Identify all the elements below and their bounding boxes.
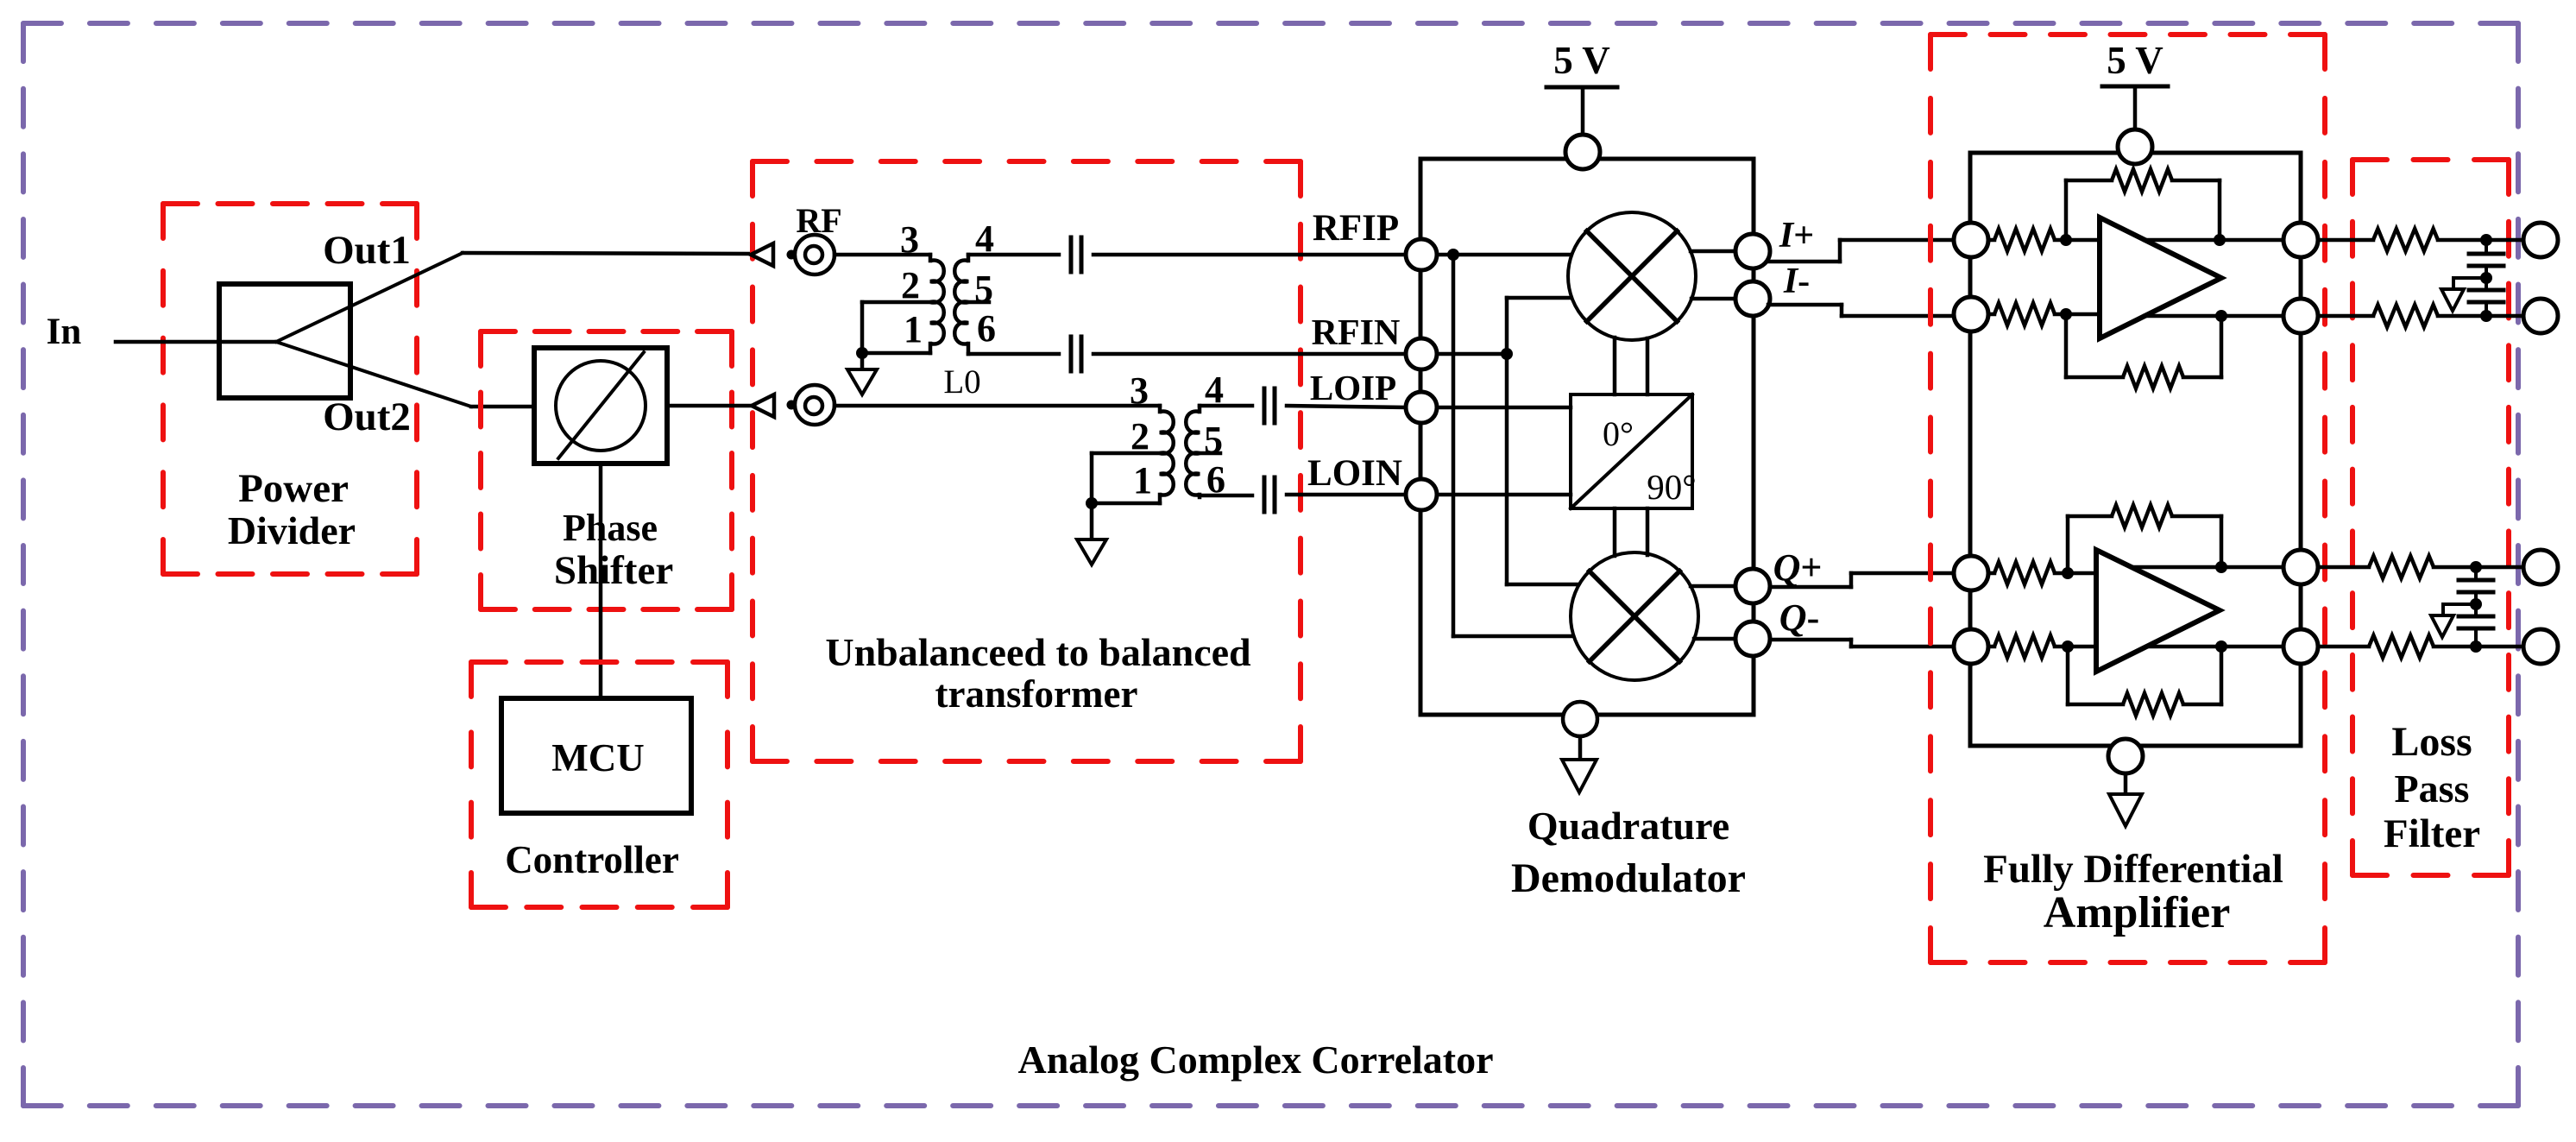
- 5V supply bar (amplifier): [2102, 85, 2168, 89]
- label MCU: [551, 736, 644, 779]
- demod input node LOIN: [1406, 479, 1437, 510]
- label 5 V (amplifier supply): [2107, 39, 2163, 82]
- wire: I+ to amplifier input: [1768, 240, 1954, 262]
- junction dot on RFIP line: [1447, 249, 1459, 261]
- wire: T1 pin6 to capacitor C2: [968, 352, 1059, 356]
- wire: U3A output- to port: [2145, 314, 2283, 319]
- junction dot T1 pin1/pin2: [856, 347, 868, 359]
- wire: RFIP branch down to mixer M2 lower input: [1453, 255, 1575, 636]
- phase shifter PS1 block: [534, 348, 667, 464]
- label 0 degrees: [1603, 414, 1634, 453]
- wire: T1 pin5 stub: [968, 300, 989, 305]
- wire: R10 to output terminal: [2438, 314, 2524, 319]
- demod input node RFIP: [1406, 239, 1437, 270]
- RF connector arrowhead: [751, 243, 773, 266]
- svg-text:6: 6: [977, 307, 996, 350]
- mixer M2 (Q channel): [1571, 552, 1698, 680]
- label Quadrature Demodulator: [1511, 804, 1746, 901]
- label T1 pin 5: [974, 268, 993, 310]
- feedback resistor R3 (U3A top): [2066, 169, 2220, 240]
- svg-text:1: 1: [1133, 459, 1152, 502]
- junction dot LPF I-: [2480, 310, 2492, 322]
- label 5 V (demodulator supply): [1553, 39, 1609, 82]
- junction dot R4/output: [2215, 310, 2227, 322]
- demod output node I+: [1735, 234, 1770, 268]
- wire: RFIN node to junction: [1437, 352, 1507, 356]
- junction dot R5/feedback: [2062, 567, 2074, 579]
- output terminal circle Q+: [2523, 550, 2558, 584]
- svg-text:RF: RF: [796, 201, 841, 240]
- ground G4 below amplifier: [2109, 773, 2142, 826]
- wire: amp out+ to filter resistor: [2318, 238, 2373, 243]
- LO connector J2: [795, 385, 835, 425]
- label In: [47, 312, 82, 352]
- wire: T1 pin4 to capacitor C1: [968, 253, 1059, 257]
- label T1 pin 2: [901, 264, 920, 306]
- junction dot LPF Q-: [2470, 640, 2482, 653]
- resistor R5 (U3B + input): [1988, 562, 2096, 584]
- dashed box: Power Divider: [163, 204, 417, 574]
- junction dot R1/feedback: [2060, 234, 2072, 246]
- wire: T2 pin6 to capacitor C4: [1200, 494, 1252, 498]
- wire: LOIN node to phase splitter: [1437, 493, 1571, 497]
- label Loss Pass Filter: [2384, 719, 2480, 856]
- wire: Out2 to Phase Shifter: [471, 405, 534, 409]
- demod supply pin circle: [1565, 135, 1600, 169]
- label Q+: [1773, 546, 1823, 589]
- junction dot LPF I+: [2480, 234, 2492, 246]
- dashed box: Phase Shifter: [481, 331, 732, 609]
- wire: Q+ to amplifier input: [1770, 573, 1951, 587]
- demod input node RFIN: [1406, 338, 1437, 369]
- label Fully Differential Amplifier: [1983, 847, 2283, 937]
- wire: RF connector to T1 pin3: [835, 253, 930, 257]
- svg-text:3: 3: [900, 218, 919, 261]
- svg-text:2: 2: [901, 264, 920, 306]
- svg-text:Quadrature: Quadrature: [1527, 804, 1729, 848]
- svg-text:I+: I+: [1779, 216, 1814, 256]
- svg-text:Fully Differential: Fully Differential: [1983, 847, 2283, 892]
- capacitor C1 on RFIP line: [1071, 237, 1081, 272]
- wire: Q- to amplifier input: [1770, 640, 1951, 647]
- resistor R1 (U3A + input): [1988, 229, 2100, 251]
- capacitor C8 (LPF Q lower): [2459, 604, 2493, 647]
- junction dot on RFIN line: [1501, 348, 1513, 360]
- demod input node LOIP: [1406, 392, 1437, 423]
- transformer T1 primary winding (pins 3-2-1): [930, 255, 944, 353]
- wire: amp Q out- to filter resistor: [2318, 645, 2369, 649]
- resistor R6 (U3B - input): [1988, 635, 2096, 658]
- wire: mixer M1 to I+ node: [1691, 249, 1753, 254]
- junction dot R8/output: [2215, 640, 2227, 653]
- dashed box: Unbalanceed to balanced transformer: [753, 161, 1301, 761]
- label T2 pin 3: [1130, 369, 1149, 412]
- capacitor C7 (LPF Q upper): [2459, 567, 2493, 604]
- svg-text:Q-: Q-: [1779, 596, 1819, 639]
- wire: T2 pin4 to capacitor C3: [1200, 404, 1252, 408]
- junction dot between C5/C6: [2480, 272, 2492, 284]
- svg-text:Out1: Out1: [323, 228, 411, 273]
- label 90 degrees: [1647, 467, 1696, 507]
- label Phase Shifter: [554, 507, 673, 593]
- quadrature demodulator U2 block: [1420, 159, 1754, 715]
- amplifier supply pin circle: [2118, 129, 2152, 164]
- svg-text:RFIN: RFIN: [1312, 313, 1401, 353]
- op-amp U3B triangle: [2096, 550, 2220, 672]
- transformer T1 secondary winding (pins 4-5-6): [954, 255, 968, 354]
- svg-text:transformer: transformer: [935, 672, 1138, 716]
- MCU U1 block: [501, 698, 691, 813]
- junction dot between C7/C8: [2470, 598, 2482, 610]
- wire: LOIP node to phase splitter: [1437, 406, 1571, 410]
- svg-text:Analog Complex Correlator: Analog Complex Correlator: [1017, 1038, 1493, 1082]
- svg-text:L0: L0: [943, 363, 980, 401]
- svg-text:I-: I-: [1783, 262, 1810, 301]
- demod output node Q-: [1735, 621, 1770, 656]
- wire: RFIP node to mixer M1 upper input: [1437, 253, 1572, 257]
- svg-text:Q+: Q+: [1773, 546, 1823, 589]
- LO connector arrowhead: [752, 394, 774, 417]
- dashed box: Controller: [471, 662, 727, 907]
- ground G2 below T2: [1077, 503, 1106, 565]
- label Unbalanceed to balanced transformer: [825, 630, 1251, 716]
- svg-text:Pass: Pass: [2395, 767, 2470, 811]
- svg-text:Loss: Loss: [2391, 719, 2472, 765]
- label I+: [1779, 216, 1814, 256]
- junction dot R6/feedback: [2062, 640, 2074, 653]
- output terminal circle I-: [2523, 299, 2558, 333]
- junction dot at RF connector: [787, 250, 797, 260]
- ground G5 of I filter: [2441, 278, 2486, 311]
- capacitor C5 (LPF I upper): [2469, 240, 2504, 278]
- svg-text:Filter: Filter: [2384, 811, 2480, 856]
- wire: LO connector to T2 pin3: [835, 404, 1160, 408]
- svg-text:Controller: Controller: [505, 838, 679, 881]
- wire: C3 to LOIP node: [1287, 406, 1406, 407]
- resistor R10 (LPF I-): [2373, 305, 2438, 327]
- wire: amp Q out+ to filter resistor: [2318, 565, 2369, 570]
- wire pair: phase splitter to mixer M1: [1615, 338, 1647, 394]
- svg-text:In: In: [47, 312, 82, 352]
- mixer M1 (I channel): [1568, 212, 1696, 340]
- label T2 pin 6: [1206, 458, 1225, 501]
- svg-text:0°: 0°: [1603, 414, 1634, 453]
- dashed box: Fully Differential Amplifier: [1930, 35, 2325, 962]
- svg-text:LOIN: LOIN: [1307, 453, 1402, 494]
- amplifier ground pin circle: [2108, 739, 2143, 773]
- label T1 pin 3: [900, 218, 919, 261]
- svg-text:Power: Power: [238, 466, 349, 511]
- svg-text:5 V: 5 V: [2107, 39, 2163, 82]
- resistor R11 (LPF Q+): [2369, 556, 2434, 578]
- wire: T2 pin2 center tap to ground loop: [1092, 453, 1160, 503]
- wire pair: phase splitter to mixer M2: [1615, 508, 1647, 556]
- wire: U3B output- to port: [2147, 645, 2283, 649]
- wire: U3A output+ to port: [2145, 238, 2283, 243]
- label: Analog Complex Correlator: [1017, 1038, 1493, 1082]
- op-amp U3B output port circles: [2283, 550, 2318, 664]
- svg-text:Out2: Out2: [323, 394, 411, 439]
- output terminal circle I+: [2523, 223, 2558, 257]
- svg-text:MCU: MCU: [551, 736, 644, 779]
- op-amp U3A triangle: [2100, 218, 2221, 338]
- label RFIP: [1313, 208, 1399, 249]
- wire: C4 to LOIN node: [1287, 493, 1406, 497]
- wire: Out1 to RF connector: [463, 253, 751, 254]
- wire: R12 to output terminal: [2434, 645, 2524, 649]
- capacitor C3 on LOIP line: [1264, 388, 1275, 423]
- wire: I- to amplifier input: [1768, 305, 1954, 316]
- svg-text:LOIP: LOIP: [1310, 368, 1396, 407]
- capacitor C2 on RFIN line: [1071, 337, 1081, 371]
- junction dot R2/feedback: [2060, 308, 2072, 320]
- label T2 pin 2: [1131, 415, 1149, 457]
- wire: 5V to demod supply pin: [1581, 87, 1585, 135]
- dashed box: Loss Pass Filter: [2352, 160, 2509, 875]
- demod output node Q+: [1735, 569, 1770, 603]
- wire: R11 to output terminal: [2434, 565, 2524, 570]
- wire: amp out- to filter resistor: [2318, 314, 2373, 319]
- resistor R2 (U3A - input): [1988, 303, 2100, 325]
- label L0: [943, 363, 980, 401]
- junction dot LPF Q+: [2470, 561, 2482, 573]
- phase splitter 0/90 block: [1571, 394, 1692, 508]
- op-amp U3A input port circles: [1954, 223, 1988, 331]
- label T1 pin 6: [977, 307, 996, 350]
- junction dot at LO connector: [787, 401, 797, 410]
- wire: Phase Shifter to LO connector: [667, 404, 752, 408]
- wire: Phase Shifter control from MCU: [599, 464, 603, 698]
- output terminal circle Q-: [2523, 629, 2558, 664]
- transformer T2 primary winding (pins 3-2-1): [1160, 406, 1174, 503]
- label T2 pin 4: [1205, 369, 1224, 411]
- label RF: [796, 201, 841, 240]
- label RFIN: [1312, 313, 1401, 353]
- resistor R9 (LPF I+): [2373, 229, 2438, 251]
- label Power Divider: [228, 466, 356, 552]
- label I-: [1783, 262, 1810, 301]
- junction dot R7/output: [2215, 561, 2227, 573]
- svg-text:Unbalanceed to balanced: Unbalanceed to balanced: [825, 630, 1251, 674]
- svg-text:RFIP: RFIP: [1313, 208, 1399, 249]
- feedback resistor R8 (U3B bottom): [2068, 647, 2221, 716]
- svg-text:1: 1: [904, 308, 923, 350]
- label T2 pin 1: [1133, 459, 1152, 502]
- svg-text:Amplifier: Amplifier: [2044, 888, 2231, 937]
- demod ground pin circle: [1563, 702, 1597, 736]
- resistor R12 (LPF Q-): [2369, 635, 2434, 658]
- ground G1 below T1: [847, 353, 877, 394]
- label LOIP: [1310, 368, 1396, 407]
- wire: T1 pin2 center tap to ground loop: [862, 302, 930, 353]
- wire: mixer M1 to I- node: [1691, 297, 1753, 301]
- label Out2: [323, 394, 411, 439]
- wire: R9 to output terminal: [2438, 238, 2524, 243]
- junction dot T2 pin1/pin2: [1086, 497, 1098, 509]
- capacitor C6 (LPF I lower): [2469, 278, 2504, 316]
- demod output node I-: [1735, 281, 1770, 316]
- label Out1: [323, 228, 411, 273]
- svg-text:5 V: 5 V: [1553, 39, 1609, 82]
- wire: U3B output+ to port: [2132, 565, 2283, 570]
- svg-text:Divider: Divider: [228, 508, 356, 552]
- svg-text:Phase: Phase: [563, 507, 658, 549]
- label T1 pin 4: [975, 218, 994, 260]
- capacitor C4 on LOIN line: [1264, 477, 1275, 512]
- label Q-: [1779, 596, 1819, 639]
- fully differential amplifier U3 block: [1970, 153, 2301, 746]
- ground G3 below demodulator: [1562, 736, 1597, 792]
- label LOIN: [1307, 453, 1402, 494]
- wire: RFIN branch up to mixer M1 lower input: [1507, 298, 1572, 354]
- feedback resistor R4 (U3A bottom): [2066, 314, 2221, 388]
- op-amp U3B input port circles: [1954, 556, 1988, 664]
- wire: T2 pin5 stub: [1196, 451, 1220, 456]
- wire: mixer M2 to Q+ node: [1691, 584, 1753, 589]
- wire: C2 to RFIN node: [1093, 352, 1406, 356]
- op-amp U3A output port circles: [2283, 223, 2318, 333]
- wire: In input: [116, 340, 276, 344]
- svg-text:3: 3: [1130, 369, 1149, 412]
- svg-text:Shifter: Shifter: [554, 548, 673, 593]
- junction dot R3/output: [2214, 234, 2226, 246]
- label Controller: [505, 838, 679, 881]
- wire: C1 to RFIP node: [1093, 253, 1406, 257]
- RF connector J1: [795, 235, 835, 274]
- wire: mixer M2 to Q- node: [1694, 637, 1753, 641]
- transformer T2 secondary winding (pins 4-5-6): [1186, 406, 1200, 497]
- svg-text:90°: 90°: [1647, 467, 1696, 507]
- label T1 pin 1: [904, 308, 923, 350]
- wire: RFIN branch down to mixer M2 upper input: [1507, 354, 1580, 584]
- svg-text:Demodulator: Demodulator: [1511, 855, 1746, 901]
- 5V supply bar (demodulator): [1546, 85, 1617, 90]
- svg-text:2: 2: [1131, 415, 1149, 457]
- wire: 5V to amplifier supply pin: [2133, 86, 2138, 130]
- power divider PD1 block: [219, 253, 471, 407]
- label T2 pin 5: [1204, 419, 1223, 461]
- feedback resistor R7 (U3B top): [2068, 505, 2221, 573]
- ground G6 of Q filter: [2431, 604, 2476, 637]
